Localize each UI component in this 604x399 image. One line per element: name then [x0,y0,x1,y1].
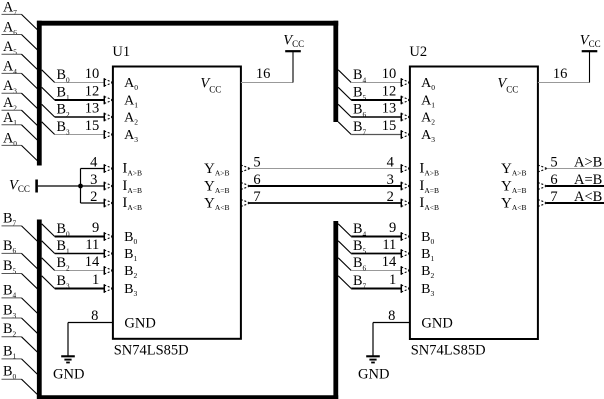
svg-text:B7: B7 [353,273,366,290]
pin 6 output triangle [538,183,547,190]
wire B2 to B bus [22,337,39,353]
wire to U1 pin 3 [81,185,105,187]
svg-text:2: 2 [387,189,394,205]
wire tap B5 to pin 12 [338,87,401,100]
svg-text:A=B: A=B [574,172,602,188]
wire pin 16 to VCC [241,52,293,83]
svg-text:9: 9 [389,220,396,236]
pin 5 output triangle [538,165,547,172]
svg-text:B0: B0 [57,221,70,238]
node A7 label [2,0,22,17]
pin 2 input triangle [104,199,113,208]
svg-text:16: 16 [553,66,568,82]
node A1 label [2,110,22,127]
wire U1 Y pin 5 to U2 I pin 4 [250,168,402,170]
svg-text:B7: B7 [353,119,366,136]
wire A0 to A bus [22,145,39,161]
svg-text:B3: B3 [421,282,434,298]
svg-text:B3: B3 [57,119,70,136]
svg-text:1: 1 [389,272,396,288]
svg-text:10: 10 [382,66,397,82]
node B4 label [2,282,22,299]
svg-text:B3: B3 [3,302,16,319]
wire to U1 pin 4 [81,168,105,170]
pin 2 input triangle [401,199,410,208]
wire U2 output pin 7 (A&lt;B) [547,202,604,204]
wire tap B4 to pin 9 [338,224,401,237]
node B2 label [2,321,22,338]
svg-text:13: 13 [382,100,397,116]
pin 13 input triangle [401,113,410,122]
wire tap B0 to pin 9 [42,224,105,237]
wire tap B0 to pin 10 [42,70,105,83]
svg-text:B6: B6 [3,238,16,255]
svg-text:4: 4 [387,154,395,170]
svg-text:A3: A3 [421,128,435,144]
node B5 label [2,258,22,275]
svg-text:A2: A2 [421,110,435,126]
svg-text:GND: GND [53,366,84,382]
svg-text:B4: B4 [3,282,16,299]
wire tap B3 to pin 1 [42,276,105,289]
pin 3 input triangle [401,182,410,191]
wire tap B7 to pin 15 [338,122,401,135]
wire pin 16 to VCC [538,52,590,83]
pin 11 input triangle [104,249,113,258]
svg-text:VCC: VCC [9,178,30,195]
wire B6 to B bus [22,253,39,269]
svg-text:SN74LS85D: SN74LS85D [411,343,486,359]
pin 4 input triangle [401,164,410,173]
wire A3 to A bus [22,93,39,109]
svg-text:IA=B: IA=B [419,178,439,195]
wire tap B5 to pin 11 [338,241,401,254]
svg-text:VCC: VCC [283,32,304,49]
bus: A bus top horizontal [37,21,338,26]
svg-text:U2: U2 [409,44,427,60]
svg-text:B2: B2 [124,264,137,280]
svg-text:YA>B: YA>B [204,161,230,178]
svg-text:B2: B2 [57,255,70,272]
wire A1 to A bus [22,125,39,141]
wire B4 to B bus [22,298,39,314]
wire U1 Y pin 7 to U2 I pin 2 [250,202,402,204]
svg-text:GND: GND [358,366,389,382]
svg-text:7: 7 [550,189,557,205]
svg-text:15: 15 [382,118,397,134]
comparator U2 body [410,67,538,340]
svg-text:B5: B5 [353,85,366,102]
svg-text:VCC: VCC [497,75,518,94]
bus: A bus left vertical [37,21,42,166]
wire junction vertical branch [80,169,82,204]
svg-text:IA<B: IA<B [122,195,142,212]
node junction dot [78,184,83,189]
svg-text:IA<B: IA<B [419,195,439,212]
wire tap B1 to pin 12 [42,87,105,100]
wire tap B6 to pin 13 [338,104,401,117]
svg-text:IA>B: IA>B [122,160,142,177]
pin 1 input triangle [104,284,113,293]
svg-text:B1: B1 [421,247,434,263]
pin 10 input triangle [104,78,113,87]
wire U1 Y pin 6 to U2 I pin 3 [250,185,402,187]
svg-text:B1: B1 [3,343,16,360]
svg-text:7: 7 [253,189,260,205]
svg-text:GND: GND [124,316,155,332]
svg-text:B5: B5 [353,238,366,255]
svg-text:YA<B: YA<B [501,195,527,212]
node A4 label [2,58,22,75]
svg-text:VCC: VCC [580,32,601,49]
power VCC symbol [283,32,304,51]
svg-text:5: 5 [550,154,557,170]
wire B3 to B bus [22,318,39,334]
wire B5 to B bus [22,274,39,290]
pin 1 input triangle [401,284,410,293]
pin 4 input triangle [104,164,113,173]
svg-text:14: 14 [85,254,100,270]
bus: B bus right riser to U2 [333,221,338,399]
node B6 label [2,238,22,255]
svg-text:B0: B0 [421,230,434,246]
svg-text:3: 3 [387,172,394,188]
pin 12 input triangle [401,96,410,105]
svg-text:YA=B: YA=B [501,178,527,195]
svg-text:15: 15 [85,118,100,134]
wire pin 8 to ground [68,323,113,357]
svg-text:YA<B: YA<B [204,195,230,212]
wire U2 output pin 5 (A&gt;B) [547,168,604,170]
svg-text:A>B: A>B [574,154,602,170]
node B7 label [2,210,22,227]
svg-text:B1: B1 [57,85,70,102]
svg-text:1: 1 [92,272,99,288]
svg-text:8: 8 [388,308,395,324]
wire A7 to A bus [22,14,39,30]
svg-text:YA>B: YA>B [501,161,527,178]
pin 7 output triangle [538,200,547,207]
wire to U1 pin 2 [81,202,105,204]
svg-text:B6: B6 [353,255,366,272]
wire A6 to A bus [22,35,39,51]
svg-text:B4: B4 [353,221,366,238]
ground symbol [366,356,380,362]
svg-text:B1: B1 [57,238,70,255]
wire tap B3 to pin 15 [42,122,105,135]
svg-text:SN74LS85D: SN74LS85D [114,343,189,359]
svg-text:9: 9 [92,220,99,236]
node A6 label [2,20,22,37]
wire tap B4 to pin 10 [338,70,401,83]
pin 3 input triangle [104,182,113,191]
svg-text:B2: B2 [3,321,16,338]
svg-text:B4: B4 [353,67,366,84]
pin 15 input triangle [401,130,410,139]
svg-text:A1: A1 [124,93,138,109]
pin 14 input triangle [401,266,410,275]
svg-text:B7: B7 [3,210,16,227]
node B3 label [2,302,22,319]
svg-text:B3: B3 [124,282,137,298]
wire tap B2 to pin 14 [42,258,105,271]
svg-text:2: 2 [90,189,97,205]
bus: B bus left vertical [37,220,42,399]
wire B7 to B bus [22,226,39,242]
svg-text:6: 6 [550,172,557,188]
bus: B bus bottom horizontal [37,395,338,399]
pin 14 input triangle [104,266,113,275]
svg-text:B0: B0 [124,230,137,246]
wire VCC to junction [38,185,81,187]
svg-text:A0: A0 [124,76,138,92]
svg-text:13: 13 [85,100,100,116]
svg-text:3: 3 [90,172,97,188]
pin 11 input triangle [401,249,410,258]
svg-text:A3: A3 [124,128,138,144]
bus: A bus right riser to U2 [333,21,338,122]
node A2 label [2,95,22,112]
pin 13 input triangle [104,113,113,122]
wire A5 to A bus [22,54,39,70]
pin 9 input triangle [401,232,410,241]
wire tap B1 to pin 11 [42,241,105,254]
svg-text:6: 6 [253,172,260,188]
wire tap B7 to pin 1 [338,276,401,289]
svg-text:11: 11 [382,237,396,253]
pin 5 output triangle [241,165,250,172]
pin 12 input triangle [104,96,113,105]
svg-text:U1: U1 [112,44,130,60]
svg-text:14: 14 [382,254,397,270]
svg-text:12: 12 [85,83,100,99]
pin 10 input triangle [401,78,410,87]
svg-text:A1: A1 [421,93,435,109]
node B1 label [2,343,22,360]
svg-text:A0: A0 [421,76,435,92]
node A3 label [2,78,22,95]
wire A2 to A bus [22,110,39,126]
svg-text:10: 10 [85,66,100,82]
node A0 label [2,130,22,147]
node B0 label [2,364,22,381]
pin 6 output triangle [241,183,250,190]
svg-text:GND: GND [421,316,452,332]
svg-text:B3: B3 [57,273,70,290]
power VCC symbol [580,32,601,51]
svg-text:IA>B: IA>B [419,160,439,177]
svg-text:B0: B0 [57,67,70,84]
svg-text:VCC: VCC [200,75,221,94]
svg-text:IA=B: IA=B [122,178,142,195]
svg-text:B1: B1 [124,247,137,263]
svg-text:8: 8 [91,308,98,324]
svg-text:16: 16 [256,66,271,82]
wire A4 to A bus [22,73,39,89]
pin 7 output triangle [241,200,250,207]
svg-text:5: 5 [253,154,260,170]
pin 15 input triangle [104,130,113,139]
svg-text:A<B: A<B [574,189,602,205]
svg-text:B6: B6 [353,102,366,119]
ground symbol [61,356,75,362]
svg-text:B2: B2 [421,264,434,280]
pin 9 input triangle [104,232,113,241]
svg-text:A2: A2 [124,110,138,126]
comparator U1 body [113,67,241,339]
svg-text:B0: B0 [3,364,16,381]
VCC supply for U1 cascading inputs [9,178,37,195]
wire tap B6 to pin 14 [338,258,401,271]
wire U2 output pin 6 (A=B) [547,185,604,187]
svg-text:YA=B: YA=B [204,178,230,195]
svg-text:4: 4 [90,154,98,170]
svg-text:11: 11 [85,237,99,253]
wire B0 to B bus [22,379,39,395]
wire B1 to B bus [22,359,39,375]
node A5 label [2,39,22,56]
svg-text:B5: B5 [3,258,16,275]
svg-text:12: 12 [382,83,397,99]
wire pin 8 to ground [373,323,410,357]
svg-text:B2: B2 [57,102,70,119]
wire tap B2 to pin 13 [42,104,105,117]
